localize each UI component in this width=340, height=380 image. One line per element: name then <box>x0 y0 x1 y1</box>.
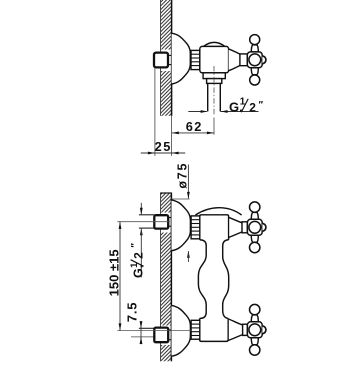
wall surface extension line down to dimension <box>171 116 173 156</box>
handle hub <box>247 52 262 68</box>
svg-text:1: 1 <box>129 262 140 268</box>
bottom knurled ring <box>191 320 200 339</box>
escutcheon bell (side view) <box>172 33 191 84</box>
bottom wall fitting (eccentric union), bottom figure <box>131 328 171 343</box>
dimension ø75 <box>172 162 190 262</box>
dimension 62 <box>172 118 214 135</box>
dimension 25 <box>141 139 185 154</box>
valve cartridge dome <box>204 42 225 46</box>
top handle stem <box>242 222 247 233</box>
wall (hatched section), upper part <box>160 0 171 116</box>
handle hub circle <box>249 54 261 66</box>
bottom handle stem <box>243 324 248 335</box>
outlet pipe <box>207 83 209 111</box>
handle top neck <box>251 45 258 52</box>
handle bottom neck <box>251 68 258 75</box>
pipe centre line <box>213 66 215 115</box>
escutcheon bell, bottom valve <box>172 305 191 356</box>
bottom cone to handle <box>228 319 242 341</box>
nut under body <box>203 73 225 79</box>
top valve axis line <box>117 221 170 223</box>
svg-text:2: 2 <box>132 252 146 259</box>
svg-text:62: 62 <box>186 119 203 134</box>
svg-text:25: 25 <box>155 139 172 154</box>
body top dome arc <box>195 208 241 215</box>
cone to handle <box>229 49 240 71</box>
central column with bulges <box>198 240 206 319</box>
wall square fitting <box>154 53 168 68</box>
wall (hatched section) <box>160 193 172 361</box>
svg-text:150 ±15: 150 ±15 <box>107 249 122 296</box>
bottom valve cylinder <box>200 318 229 341</box>
top wall fitting (eccentric union), bottom figure <box>139 215 172 229</box>
pipe stub into wall <box>168 54 172 56</box>
escutcheon bell, top valve <box>172 200 191 251</box>
dimension 7.5 (rotated) <box>125 302 143 345</box>
G.1/2" label (top figure) <box>229 97 264 115</box>
extension line from fitting left face <box>154 68 156 156</box>
top knurled ring <box>191 216 200 239</box>
svg-text:ø75: ø75 <box>176 162 190 189</box>
handle bottom ball <box>250 75 260 85</box>
top handle <box>247 202 266 253</box>
handle front spoke (end-on) <box>262 56 266 64</box>
valve body <box>200 46 229 72</box>
handle top ball <box>250 35 260 45</box>
svg-text:7.5: 7.5 <box>125 302 140 322</box>
top cone to handle <box>229 217 242 237</box>
knurled ring <box>191 50 200 69</box>
dimension 150 ±15 <box>107 222 122 331</box>
dimension G.1/2" (rotated) <box>129 203 146 278</box>
bottom valve axis line <box>117 330 191 332</box>
svg-text:2: 2 <box>249 100 256 114</box>
bottom handle <box>247 304 266 355</box>
G1/2 leader (top figure) <box>188 110 258 113</box>
handle stem <box>240 54 248 66</box>
top valve cylinder <box>200 215 229 240</box>
threaded step <box>207 79 222 84</box>
